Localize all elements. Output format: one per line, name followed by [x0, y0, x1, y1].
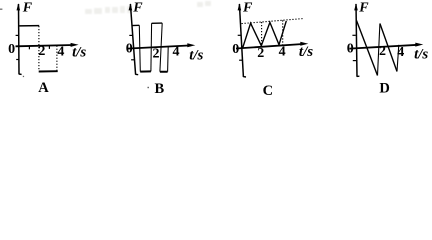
- wave B top2: [152, 22, 163, 24]
- F axis tick -F D: [353, 60, 356, 62]
- stray mark left edge: [0, 9, 2, 10]
- t axis C: [236, 44, 303, 49]
- F axis tick +F C: [238, 34, 242, 36]
- wave D riser 1: [378, 24, 380, 76]
- svg-text:4: 4: [279, 45, 286, 60]
- svg-text:4: 4: [57, 45, 64, 60]
- wave A dotted drop at t=2: [38, 26, 40, 71]
- wave D descent 2: [380, 24, 397, 72]
- svg-text:F: F: [22, 1, 33, 16]
- wave B rise t=4: [167, 47, 170, 72]
- wave B bottom1: [140, 70, 151, 72]
- F axis tick -F B: [131, 59, 135, 61]
- F axis tick +F A: [16, 34, 19, 36]
- svg-text:F: F: [242, 1, 253, 16]
- svg-text:t/s: t/s: [299, 44, 313, 60]
- wave D riser 2: [397, 45, 399, 72]
- svg-text:t/s: t/s: [189, 47, 203, 63]
- t axis tick t=3 A: [48, 46, 50, 49]
- axis foot B: [135, 73, 138, 75]
- t axis arrowhead C: [300, 42, 308, 46]
- F axis (vertical) C: [239, 4, 243, 77]
- svg-text:0: 0: [8, 42, 15, 57]
- F axis arrowhead D: [354, 3, 358, 10]
- wave A bottom segment: [39, 70, 58, 72]
- wave B top1: [132, 24, 140, 26]
- t axis arrowhead D: [415, 43, 423, 47]
- svg-text:A: A: [38, 80, 49, 96]
- t axis arrowhead B: [187, 43, 195, 47]
- svg-text:C: C: [263, 83, 273, 99]
- F axis tick +F D: [352, 34, 355, 36]
- axis foot D: [357, 75, 360, 77]
- t axis D: [350, 45, 419, 49]
- wave C zigzag: [243, 21, 287, 48]
- stray dot before letter B: [148, 87, 149, 88]
- t axis A: [16, 45, 74, 46]
- F axis arrowhead B: [129, 3, 133, 10]
- svg-text:0: 0: [232, 42, 239, 57]
- dotted vertical t=2 C: [261, 22, 263, 46]
- F axis arrowhead A: [17, 3, 21, 10]
- wave B drop t=1: [139, 25, 140, 71]
- t axis B: [127, 45, 191, 48]
- wave B bottom2: [160, 71, 168, 73]
- F axis (vertical) B: [130, 4, 135, 75]
- svg-text:F: F: [132, 1, 143, 16]
- F axis (vertical) D: [356, 4, 357, 77]
- svg-text:t/s: t/s: [72, 45, 86, 61]
- axis foot C: [243, 76, 246, 78]
- t axis tick t=1 A: [28, 46, 30, 49]
- F axis arrowhead C: [238, 3, 242, 10]
- svg-text:2: 2: [379, 44, 386, 59]
- svg-text:D: D: [379, 81, 389, 97]
- F axis tick -F A: [16, 59, 19, 61]
- svg-text:B: B: [154, 81, 164, 97]
- faint bleed-through smudges top middle: [85, 1, 211, 14]
- svg-text:4: 4: [173, 45, 180, 60]
- wave A top segment: [19, 25, 39, 27]
- stray dot right of A panel: [23, 76, 24, 77]
- svg-text:2: 2: [153, 47, 160, 62]
- axis foot A: [19, 73, 22, 75]
- dotted vertical t=4 C: [282, 20, 284, 45]
- wave B drop t=3: [160, 23, 162, 72]
- dotted peak level line C: [242, 19, 304, 24]
- F axis (vertical) A: [18, 4, 21, 74]
- svg-text:0: 0: [126, 42, 133, 57]
- F axis tick -F C: [239, 59, 243, 61]
- F axis tick +F B: [129, 34, 133, 36]
- svg-text:F: F: [358, 1, 369, 16]
- t axis arrowhead A: [71, 43, 79, 47]
- svg-text:t/s: t/s: [414, 47, 428, 63]
- wave B rise t=2: [150, 23, 153, 71]
- wave A dotted rise at t=4: [56, 46, 58, 71]
- wave D sawtooth: [357, 21, 378, 76]
- svg-text:0: 0: [347, 42, 354, 57]
- svg-text:2: 2: [257, 46, 264, 61]
